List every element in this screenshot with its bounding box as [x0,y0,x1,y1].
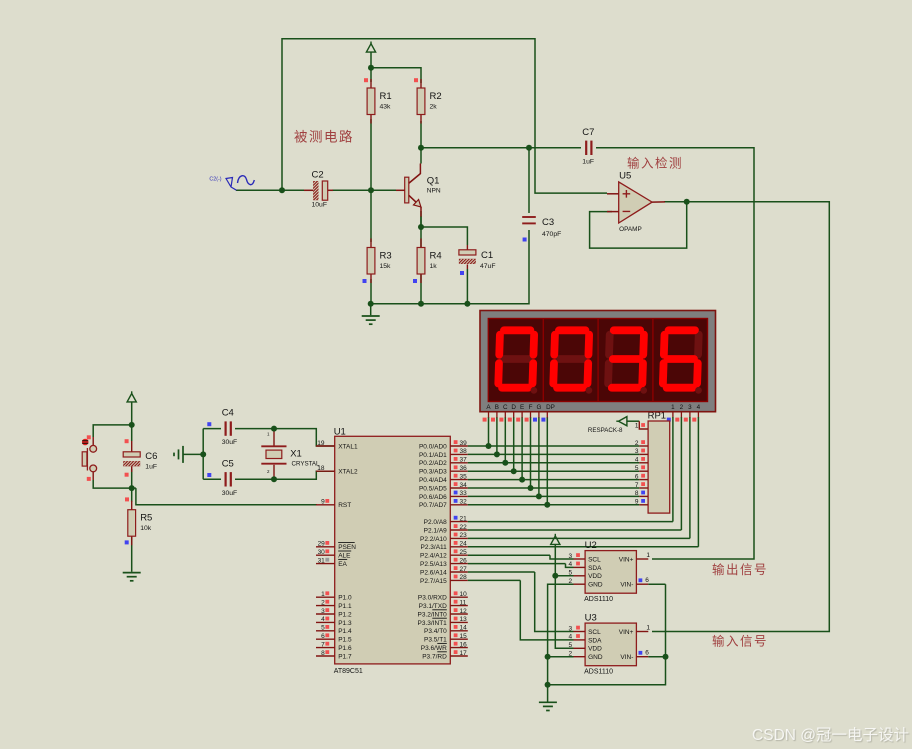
svg-text:R1: R1 [380,91,392,102]
svg-text:19: 19 [317,440,325,447]
svg-text:GND: GND [588,582,603,589]
svg-text:PSEN: PSEN [338,544,356,551]
svg-text:9: 9 [635,499,639,506]
svg-text:RESPACK-8: RESPACK-8 [588,427,623,434]
svg-text:SDA: SDA [588,637,602,644]
svg-text:DP: DP [546,404,555,411]
svg-text:10: 10 [460,591,468,598]
svg-text:P2.2/A10: P2.2/A10 [420,536,447,543]
svg-text:24: 24 [460,541,468,548]
svg-text:C: C [503,404,508,411]
svg-text:P3.0/RXD: P3.0/RXD [418,595,447,602]
svg-text:C1: C1 [481,250,493,261]
svg-text:P2.6/A14: P2.6/A14 [420,569,447,576]
svg-text:被测电路: 被测电路 [294,130,354,145]
svg-text:P0.7/AD7: P0.7/AD7 [419,502,447,509]
svg-text:VIN+: VIN+ [619,629,634,636]
svg-text:2k: 2k [430,104,438,111]
svg-text:1: 1 [635,423,639,430]
svg-text:输出信号: 输出信号 [712,562,768,577]
svg-text:17: 17 [460,650,468,657]
svg-text:P1.7: P1.7 [338,653,352,660]
svg-text:NPN: NPN [427,187,441,194]
svg-text:C2(-): C2(-) [209,177,221,183]
svg-text:35: 35 [460,473,468,480]
svg-text:34: 34 [460,482,468,489]
svg-text:38: 38 [460,448,468,455]
svg-text:7: 7 [635,482,639,489]
svg-text:P0.5/AD5: P0.5/AD5 [419,485,447,492]
svg-text:CSDN @冠一电子设计: CSDN @冠一电子设计 [752,726,909,744]
svg-text:1uF: 1uF [145,464,157,471]
svg-text:13: 13 [460,616,468,623]
svg-text:EA: EA [338,561,347,568]
svg-text:ADS1110: ADS1110 [584,669,613,676]
svg-text:31: 31 [318,557,326,564]
svg-text:P1.4: P1.4 [338,628,352,635]
svg-text:5: 5 [635,465,639,472]
svg-text:15k: 15k [380,263,392,270]
svg-text:P0.0/AD0: P0.0/AD0 [419,443,447,450]
svg-text:2: 2 [680,404,684,411]
svg-text:15: 15 [460,633,468,640]
svg-text:16: 16 [460,641,468,648]
svg-text:1: 1 [321,591,325,598]
svg-text:P1.3: P1.3 [338,620,352,627]
svg-text:6: 6 [321,633,325,640]
svg-text:3: 3 [688,404,692,411]
svg-text:8: 8 [321,650,325,657]
svg-text:P2.0/A8: P2.0/A8 [424,519,448,526]
svg-text:P0.6/AD6: P0.6/AD6 [419,494,447,501]
svg-text:3: 3 [321,608,325,615]
svg-text:1: 1 [646,552,650,559]
svg-text:R4: R4 [430,251,442,262]
svg-text:P0.2/AD2: P0.2/AD2 [419,460,447,467]
svg-text:30uF: 30uF [222,439,238,446]
svg-text:ALE: ALE [338,553,351,560]
svg-text:6: 6 [645,577,649,584]
svg-text:P2.4/A12: P2.4/A12 [420,553,447,560]
svg-text:32: 32 [460,499,468,506]
svg-text:P0.4/AD4: P0.4/AD4 [419,477,447,484]
svg-text:VIN+: VIN+ [619,556,634,563]
svg-text:U5: U5 [619,171,631,182]
svg-text:P2.1/A9: P2.1/A9 [424,527,448,534]
svg-text:21: 21 [460,515,468,522]
svg-text:11: 11 [460,599,467,606]
svg-text:P3.4/T0: P3.4/T0 [424,628,447,635]
svg-text:37: 37 [460,457,468,464]
svg-text:AT89C51: AT89C51 [334,668,363,675]
svg-text:27: 27 [460,566,468,573]
svg-text:VIN-: VIN- [620,654,633,661]
svg-text:C6: C6 [145,451,157,462]
svg-text:30: 30 [318,549,326,556]
svg-text:C7: C7 [582,127,594,138]
svg-text:43k: 43k [380,104,392,111]
svg-text:10k: 10k [140,525,152,532]
svg-text:33: 33 [460,490,468,497]
svg-text:47uF: 47uF [480,263,496,270]
svg-text:P2.7/A15: P2.7/A15 [420,578,447,585]
svg-text:P0.3/AD3: P0.3/AD3 [419,469,447,476]
svg-text:输入检测: 输入检测 [627,156,683,171]
svg-text:470pF: 470pF [542,231,561,238]
svg-text:GND: GND [588,654,603,661]
svg-text:XTAL2: XTAL2 [338,469,358,476]
svg-text:P2.3/A11: P2.3/A11 [421,544,448,551]
svg-text:P2.5/A13: P2.5/A13 [420,561,447,568]
svg-text:CRYSTAL: CRYSTAL [292,461,321,468]
svg-text:6: 6 [645,650,649,657]
svg-text:P3.3/INT1: P3.3/INT1 [418,620,448,627]
svg-text:SDA: SDA [588,565,602,572]
svg-text:29: 29 [318,541,326,548]
svg-text:RST: RST [338,502,351,509]
svg-text:P1.6: P1.6 [338,645,352,652]
svg-text:U3: U3 [585,612,597,623]
svg-text:C4: C4 [222,408,234,419]
svg-text:4: 4 [321,616,325,623]
svg-text:XTAL1: XTAL1 [338,443,358,450]
svg-text:C2: C2 [312,170,324,181]
svg-text:C3: C3 [542,217,554,228]
svg-text:R5: R5 [140,513,152,524]
svg-text:E: E [520,404,524,411]
svg-text:P3.7/RD: P3.7/RD [422,653,447,660]
svg-text:8: 8 [635,490,639,497]
svg-text:2: 2 [635,440,639,447]
svg-text:2: 2 [321,599,325,606]
svg-text:7: 7 [321,641,325,648]
svg-text:VDD: VDD [588,573,602,580]
svg-text:9: 9 [321,499,325,506]
svg-text:P1.0: P1.0 [338,595,352,602]
svg-text:22: 22 [460,524,468,531]
svg-text:P3.6/WR: P3.6/WR [421,645,447,652]
svg-text:4: 4 [697,404,701,411]
svg-text:VIN-: VIN- [620,582,633,589]
svg-text:输入信号: 输入信号 [712,634,768,649]
svg-text:Q1: Q1 [427,175,440,186]
svg-text:1: 1 [671,404,675,411]
svg-text:P1.2: P1.2 [338,611,352,618]
svg-text:30uF: 30uF [222,490,238,497]
svg-text:10uF: 10uF [312,202,328,209]
svg-text:U2: U2 [585,540,597,551]
svg-text:SCL: SCL [588,556,601,563]
svg-text:5: 5 [321,625,325,632]
svg-text:1: 1 [646,624,650,631]
svg-text:P3.2/INT0: P3.2/INT0 [418,611,448,618]
svg-text:28: 28 [460,574,468,581]
svg-text:P1.5: P1.5 [338,637,352,644]
svg-text:ADS1110: ADS1110 [584,596,613,603]
svg-text:OPAMP: OPAMP [619,226,642,233]
svg-text:U1: U1 [334,427,346,438]
svg-text:3: 3 [635,448,639,455]
svg-text:P0.1/AD1: P0.1/AD1 [419,452,447,459]
svg-text:12: 12 [460,608,468,615]
svg-text:1k: 1k [430,263,438,270]
svg-text:6: 6 [635,473,639,480]
svg-text:F: F [529,404,533,411]
svg-text:SCL: SCL [588,629,601,636]
svg-text:1uF: 1uF [582,158,594,165]
svg-text:23: 23 [460,532,468,539]
svg-text:4: 4 [635,457,639,464]
svg-text:P3.1/TXD: P3.1/TXD [419,603,447,610]
svg-text:26: 26 [460,557,468,564]
svg-text:G: G [536,404,541,411]
svg-text:14: 14 [460,625,468,632]
svg-text:R3: R3 [380,251,392,262]
svg-text:R2: R2 [430,91,442,102]
svg-text:VDD: VDD [588,646,602,653]
svg-text:P3.5/T1: P3.5/T1 [424,637,447,644]
svg-text:25: 25 [460,549,468,556]
svg-text:P1.1: P1.1 [338,603,352,610]
svg-text:39: 39 [460,440,468,447]
svg-text:D: D [511,404,516,411]
svg-text:36: 36 [460,465,468,472]
svg-text:C5: C5 [222,458,234,469]
svg-text:B: B [495,404,499,411]
svg-text:X1: X1 [290,449,302,460]
